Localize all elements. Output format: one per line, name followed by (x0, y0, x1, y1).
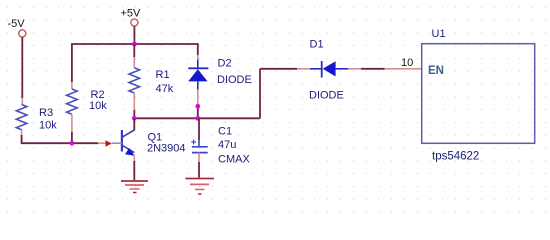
pin 10 lead of U1 (385, 68, 422, 70)
wire -5V vertical to R3 (21, 37, 23, 105)
power port -5V circle (19, 30, 26, 37)
wire mid horizontal collector to riser (134, 117, 260, 119)
svg-text:C1: C1 (218, 126, 232, 138)
base wire R3/R2 node to Q1 (21, 130, 106, 144)
diode D2 (188, 60, 208, 90)
junction dot at +5V bus (132, 42, 137, 47)
svg-text:EN: EN (428, 65, 444, 77)
wire emitter down to ground (133, 155, 135, 181)
svg-text:2N3904: 2N3904 (147, 143, 186, 155)
transistor Q1 (122, 130, 135, 156)
wire collector vertical (133, 118, 135, 130)
svg-text:47u: 47u (218, 139, 236, 151)
wire riser up to D1 row (259, 69, 261, 119)
junction dot cap node (195, 116, 200, 121)
svg-text:D2: D2 (218, 58, 232, 70)
svg-text:+5V: +5V (121, 8, 142, 20)
wire top bus horizontal (72, 43, 198, 45)
svg-text:R1: R1 (156, 69, 170, 81)
svg-text:DIODE: DIODE (217, 74, 252, 86)
wire bus to R2 top (71, 43, 73, 89)
svg-text:10: 10 (401, 57, 413, 69)
wire C1 bottom to ground (198, 153, 200, 178)
wire R1 bottom to collector node (133, 93, 135, 118)
wire +5V vertical to bus (133, 26, 135, 44)
wire D1 to U1 pin (348, 68, 384, 70)
svg-text:-5V: -5V (8, 18, 26, 30)
svg-text:CMAX: CMAX (218, 154, 250, 166)
wire R2 bottom to node (71, 114, 73, 143)
wire bus corner down to D2 (197, 43, 199, 59)
svg-text:10k: 10k (39, 120, 57, 132)
svg-text:R3: R3 (39, 107, 53, 119)
svg-text:tps54622: tps54622 (432, 151, 479, 163)
wire bus down to R1 (133, 44, 135, 68)
svg-text:47k: 47k (156, 83, 174, 95)
svg-text:DIODE: DIODE (309, 90, 344, 102)
red arrow on base wire (106, 140, 112, 146)
IC U1 box (422, 44, 535, 144)
junction dot base node (70, 141, 75, 146)
resistor R1 (129, 68, 140, 93)
resistor R3 (16, 105, 27, 130)
wire D1 row left segment (260, 68, 310, 70)
svg-text:D1: D1 (310, 39, 324, 51)
ground (Q1 emitter) (121, 181, 148, 193)
diode D1 (310, 61, 348, 78)
wire D2 anode down (197, 90, 199, 119)
base lead blue (112, 142, 122, 144)
svg-text:10k: 10k (89, 100, 107, 112)
resistor R2 (67, 89, 78, 114)
svg-text:U1: U1 (432, 28, 446, 40)
power port +5V circle (131, 19, 138, 26)
capacitor C1 (191, 118, 208, 152)
ground (C1) (186, 179, 215, 195)
junction dot collector node (132, 116, 137, 121)
junction dot D2 anode (195, 104, 200, 109)
